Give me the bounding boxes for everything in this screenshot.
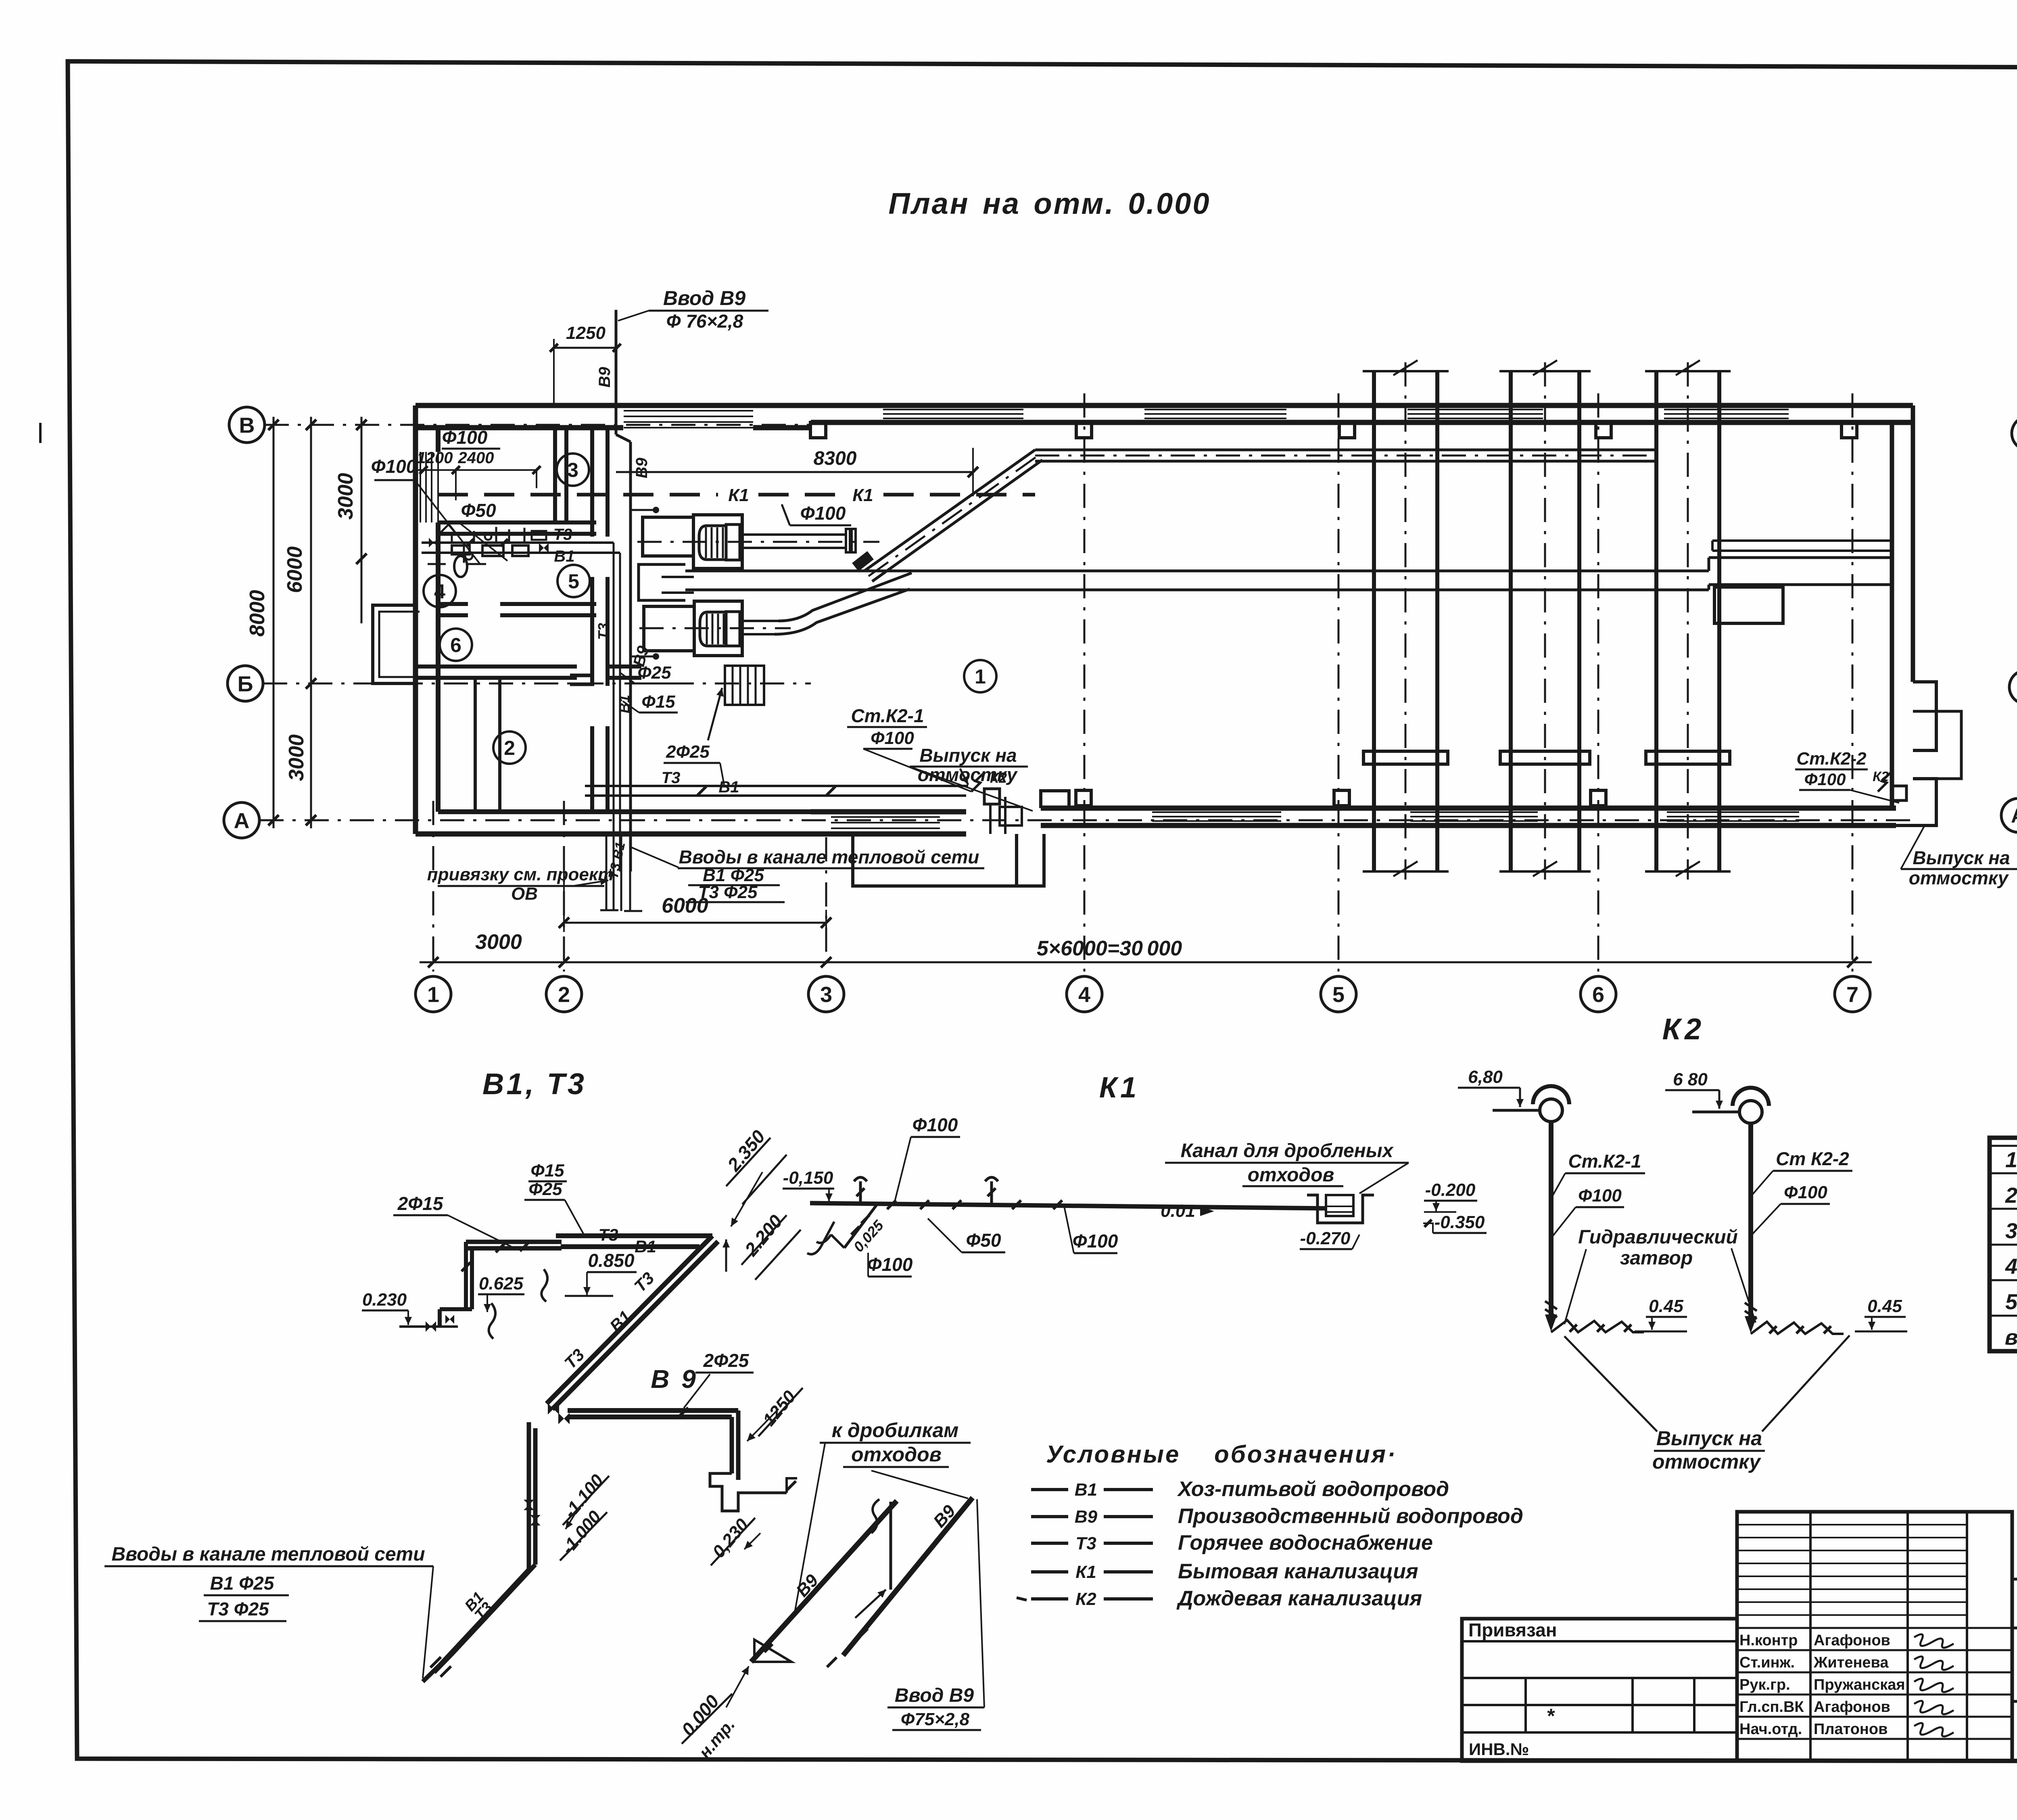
svg-text:2Ф25: 2Ф25 [666, 742, 710, 762]
axis line А horizontal [259, 819, 1916, 821]
K1 sump [1307, 1195, 1374, 1223]
svg-text:В1: В1 [616, 695, 633, 713]
V9 diagonal 2 [843, 1498, 973, 1655]
channel pit right [1714, 587, 1783, 623]
svg-text:Ф50: Ф50 [966, 1230, 1001, 1251]
svg-text:В9: В9 [633, 458, 651, 479]
svg-text:-0.200: -0.200 [1425, 1180, 1476, 1200]
axis line 7 vertical [1852, 393, 1854, 972]
corridor riser pipes T3 B1 [613, 543, 615, 871]
grinder machine 1 motor [693, 515, 742, 568]
svg-text:В9: В9 [1075, 1507, 1098, 1527]
svg-text:Т3: Т3 [598, 1225, 618, 1244]
window band top wall 2189-2537 [883, 409, 1023, 410]
machine 1 shaft [743, 533, 846, 536]
small pipe verticals sanitary [495, 527, 497, 543]
title block: left box Привязан [1462, 1619, 1737, 1761]
window band top wall 3489-3825 [1407, 409, 1543, 410]
partition tambour horizontal [416, 664, 577, 669]
svg-text:Производственный водопровод: Производственный водопровод [1178, 1504, 1523, 1528]
svg-text:1200: 1200 [417, 449, 453, 467]
svg-text:В: В [239, 413, 255, 437]
svg-text:А: А [234, 809, 250, 833]
axis line В horizontal [265, 424, 811, 426]
K2 outlet channel right [1913, 711, 1961, 779]
svg-text:К2: К2 [1662, 1012, 1706, 1046]
svg-text:5: 5 [2005, 1290, 2017, 1314]
axis circle 2 [546, 976, 582, 1012]
svg-text:0.45: 0.45 [1867, 1296, 1902, 1316]
K2 trapezoid leaders to vypusk [1564, 1336, 1657, 1431]
stairs [725, 666, 764, 705]
pipes T3 B1 to K2-1 outlet [585, 785, 968, 787]
legend row К2 [1031, 1597, 1068, 1601]
axis line 4 vertical [1084, 393, 1086, 972]
axis circle А [224, 802, 259, 838]
svg-text:Хоз-питьвой водопровод: Хоз-питьвой водопровод [1177, 1477, 1449, 1501]
svg-text:Т3: Т3 [1075, 1534, 1096, 1553]
axis circle 1 [416, 976, 451, 1012]
hall bottom wall [1041, 806, 1896, 811]
svg-text:План на отм. 0.000: План на отм. 0.000 [888, 187, 1211, 220]
partition room3/5 vertical [553, 428, 557, 522]
gate valve on diagonal [852, 551, 874, 571]
svg-text:К2: К2 [1075, 1589, 1096, 1609]
svg-text:Ст.К2-1: Ст.К2-1 [1568, 1151, 1641, 1172]
axis circle Б [228, 666, 263, 701]
svg-text:5: 5 [1332, 982, 1345, 1007]
sanitary fixtures room 4 [454, 556, 467, 577]
svg-text:Гл.сп.ВК: Гл.сп.ВК [1739, 1699, 1804, 1716]
room number circle 2 [493, 731, 526, 764]
svg-text:7: 7 [1846, 982, 1858, 1007]
svg-text:1: 1 [975, 665, 986, 688]
K1 main horizontal pipe [810, 1203, 1327, 1208]
svg-text:Ст.К2-2: Ст.К2-2 [1796, 749, 1867, 769]
sanitary piping clutter [451, 533, 453, 543]
svg-text:Агафонов: Агафонов [1814, 1699, 1890, 1716]
grille channel group 3 [1654, 371, 1658, 871]
axis line Б horizontal [263, 683, 811, 685]
hall bottom wall left segment [811, 809, 966, 815]
svg-text:В1, Т3: В1, Т3 [482, 1067, 587, 1101]
title block: central signature table [1737, 1512, 2012, 1761]
B9 entry vertical pipe [615, 310, 618, 435]
window band bottom wall 2856-3176 [1152, 811, 1281, 813]
svg-text:Ф100: Ф100 [442, 427, 488, 448]
svg-text:6,80: 6,80 [1468, 1067, 1503, 1087]
svg-text:Ф 76×2,8: Ф 76×2,8 [666, 311, 743, 332]
B9 riser taps with dots [631, 509, 654, 511]
svg-text:Горячее водоснабжение: Горячее водоснабжение [1178, 1531, 1433, 1555]
diagonal channel [865, 450, 1035, 570]
svg-text:0.45: 0.45 [1649, 1296, 1683, 1316]
svg-text:В1: В1 [718, 778, 739, 796]
svg-text:Т3: Т3 [553, 526, 572, 543]
dim line 8000 (vertical) [273, 417, 275, 828]
svg-text:3: 3 [567, 459, 578, 481]
svg-text:3: 3 [2005, 1219, 2017, 1243]
svg-text:отмостку: отмостку [1909, 867, 2009, 888]
svg-text:2Ф15: 2Ф15 [397, 1193, 444, 1214]
svg-text:Ф75×2,8: Ф75×2,8 [901, 1709, 970, 1729]
room number circle 1 [964, 660, 996, 692]
K2 funnel right [1739, 1101, 1762, 1123]
grinder machine 2 motor [694, 601, 742, 656]
left block outer wall top [416, 403, 811, 408]
svg-text:Канал для дробленых: Канал для дробленых [1181, 1140, 1394, 1162]
right branch down [736, 1410, 741, 1480]
svg-text:Б: Б [238, 672, 253, 696]
K2 ground hatch right [1751, 1322, 1844, 1334]
K2 standpipe 2 [1748, 1124, 1753, 1316]
svg-text:2Ф25: 2Ф25 [703, 1350, 750, 1371]
svg-text:Т3: Т3 [595, 623, 612, 640]
dim line 6000/3000 (vertical) [310, 417, 312, 828]
svg-text:Житенева: Житенева [1813, 1654, 1889, 1671]
svg-text:Ф100: Ф100 [867, 1254, 913, 1275]
columns squares on top wall [810, 422, 826, 438]
K2 funnel left [1540, 1099, 1562, 1122]
window band top wall 2837-3189 [1144, 409, 1286, 410]
roof plan axis circle А [2001, 798, 2017, 832]
svg-text:0.01: 0.01 [1161, 1201, 1195, 1221]
dim line 3000 upper (vertical) [361, 417, 363, 623]
svg-text:Ст.К2-1: Ст.К2-1 [851, 705, 924, 726]
svg-text:2400: 2400 [458, 449, 494, 467]
svg-text:Бытовая канализация: Бытовая канализация [1178, 1560, 1418, 1583]
left vertical pipes down [527, 1422, 531, 1569]
svg-text:В 9: В 9 [651, 1364, 698, 1394]
title block: right part [2012, 1578, 2017, 1581]
svg-text:В1: В1 [554, 547, 574, 565]
vypusk channel below building (K2-1) [1017, 834, 1044, 886]
B1T3 top horizontal pipes [556, 1233, 712, 1238]
K2 standpipe 1 [1549, 1122, 1553, 1314]
svg-text:Ф25: Ф25 [637, 663, 671, 683]
legend row В9 [1031, 1515, 1068, 1518]
K1 sewer dashed line [438, 493, 718, 497]
svg-text:отмостку: отмостку [1652, 1450, 1761, 1473]
corridor wall vertical x1468 [590, 428, 594, 537]
pipes T3/B1 horizontal in left block [422, 541, 614, 544]
axis line 3 vertical [825, 837, 827, 972]
svg-text:отходов: отходов [1248, 1164, 1334, 1186]
svg-text:-0.350: -0.350 [1434, 1212, 1485, 1232]
svg-text:Ст.инж.: Ст.инж. [1739, 1654, 1795, 1671]
svg-text:8300: 8300 [814, 448, 857, 469]
svg-text:затвор: затвор [1620, 1247, 1693, 1269]
svg-text:6: 6 [1592, 982, 1604, 1007]
svg-text:Ввод В9: Ввод В9 [895, 1685, 974, 1706]
svg-text:3000: 3000 [285, 734, 308, 781]
svg-text:Ф25: Ф25 [528, 1179, 562, 1199]
svg-text:Ф100: Ф100 [871, 728, 914, 748]
K2-2 stack symbols [1892, 786, 1906, 800]
window band top wall 4125-4434 [1664, 409, 1789, 410]
svg-text:Ф50: Ф50 [461, 500, 496, 521]
svg-text:В9: В9 [596, 367, 614, 388]
svg-text:Агафонов: Агафонов [1814, 1632, 1890, 1649]
B1T3 left riser cluster [464, 1242, 468, 1309]
dim line 6000 axis2-3 [564, 922, 826, 924]
svg-text:Ф100: Ф100 [912, 1114, 958, 1135]
floor channel line A [685, 570, 1709, 573]
svg-text:*: * [1547, 1705, 1555, 1727]
window band bottom wall 4132-4460 [1667, 811, 1799, 813]
left block outer wall bottom [416, 832, 811, 837]
hall top wall [811, 403, 1913, 408]
long channel top (double with dashdot) [1035, 449, 1658, 451]
axis circle В [229, 407, 265, 443]
V9 connector vertical [889, 1502, 892, 1590]
svg-text:обозначения·: обозначения· [1214, 1441, 1397, 1468]
svg-text:В1: В1 [1075, 1480, 1097, 1500]
riser bundle near axis 2-3 [606, 834, 608, 911]
svg-text:Выпуск на: Выпуск на [919, 745, 1017, 766]
svg-text:Привязан: Привязан [1468, 1619, 1557, 1640]
V9 diagonal 1 [751, 1501, 897, 1662]
axis circle 3 [808, 976, 844, 1012]
svg-text:Вводы в канале тепловой сети: Вводы в канале тепловой сети [111, 1544, 425, 1565]
grinder machine 2 feed box [644, 606, 694, 651]
svg-text:3: 3 [820, 982, 832, 1007]
legend row В1 [1031, 1488, 1068, 1491]
axis line 6 vertical [1597, 393, 1599, 972]
window band on left wall [420, 452, 421, 522]
partition tambour/room2 vertical thick [475, 678, 500, 812]
K2 ground hatch left [1551, 1320, 1644, 1332]
grille channel group 1 [1372, 371, 1376, 871]
axis circle 4 [1067, 976, 1102, 1012]
floor channel line B [685, 589, 1709, 591]
svg-text:3000: 3000 [334, 473, 357, 520]
svg-text:5×6000=30 000: 5×6000=30 000 [1037, 937, 1182, 960]
partition room4 bottom horizontal [438, 602, 468, 606]
wall stub at Б axis [570, 674, 594, 677]
dim line bottom 3000 / 5x6000 [420, 961, 1872, 963]
svg-text:4: 4 [2005, 1254, 2017, 1279]
svg-text:Гидравлический: Гидравлический [1578, 1227, 1738, 1248]
upper-right short channel [1712, 539, 1892, 542]
roof plan axis circle Б [2009, 670, 2017, 704]
svg-text:К1: К1 [1099, 1072, 1140, 1104]
axis line 2 vertical [563, 801, 565, 972]
svg-text:8000: 8000 [246, 590, 269, 637]
svg-text:-0,150: -0,150 [783, 1168, 833, 1188]
svg-text:Ф15: Ф15 [530, 1161, 564, 1181]
window band on top wall of left block [624, 410, 753, 412]
svg-text:2: 2 [504, 737, 515, 759]
svg-text:Выпуск на: Выпуск на [1913, 847, 2010, 868]
svg-text:1250: 1250 [566, 323, 606, 343]
svg-text:6 80: 6 80 [1673, 1070, 1708, 1089]
entrance porch outside [373, 605, 416, 683]
svg-text:Ф100: Ф100 [1804, 770, 1846, 789]
svg-text:К1: К1 [1075, 1562, 1096, 1582]
svg-text:3000: 3000 [475, 930, 522, 954]
roof plan axis circle В [2012, 416, 2017, 450]
svg-text:в: в [2005, 1325, 2017, 1350]
svg-text:привязку см. проект: привязку см. проект [427, 865, 614, 884]
svg-text:-0.270: -0.270 [1300, 1229, 1351, 1248]
machine 2 discharge channel [779, 573, 912, 621]
svg-text:Ф100: Ф100 [371, 456, 417, 477]
svg-text:Т3: Т3 [662, 769, 681, 787]
B1T3 lower horizontal pipes [568, 1408, 738, 1413]
elbow down-left to inputs [440, 1569, 529, 1665]
svg-text:6: 6 [450, 634, 461, 656]
svg-text:1: 1 [2005, 1148, 2017, 1172]
svg-text:Ввод В9: Ввод В9 [663, 287, 746, 309]
svg-text:Пружанская: Пружанская [1814, 1676, 1905, 1693]
room number circle 3 [557, 453, 589, 486]
svg-text:4: 4 [1078, 982, 1090, 1007]
svg-text:Ст К2-2: Ст К2-2 [1776, 1148, 1849, 1169]
room number circle 6 [440, 629, 472, 661]
axis circle 7 [1835, 976, 1870, 1012]
axis circle 5 [1321, 976, 1356, 1012]
room number circle 5 [557, 565, 590, 597]
svg-text:ИНВ.№: ИНВ.№ [1469, 1740, 1529, 1759]
svg-text:Условные: Условные [1046, 1441, 1180, 1468]
grille channel group 2 [1509, 371, 1513, 871]
svg-text:Платонов: Платонов [1814, 1721, 1888, 1738]
svg-text:0.625: 0.625 [479, 1274, 524, 1293]
svg-text:К1: К1 [728, 485, 749, 505]
svg-text:Т3 Ф25: Т3 Ф25 [207, 1599, 269, 1619]
svg-text:к дробилкам: к дробилкам [832, 1419, 959, 1442]
room number circle 4 [424, 575, 456, 607]
svg-text:К1: К1 [852, 485, 873, 505]
svg-text:4: 4 [434, 580, 445, 603]
svg-text:0.230: 0.230 [362, 1290, 407, 1310]
K1 vent risers [854, 1177, 867, 1203]
grinder machine 1 feed box [643, 517, 693, 556]
machine 2 shaft [743, 620, 779, 622]
svg-text:6000: 6000 [283, 546, 307, 593]
hall right wall with K2 notch [1890, 422, 1894, 808]
V9 valve squiggle top diag1 [871, 1499, 879, 1533]
window band bottom wall 3496-3812 [1410, 811, 1538, 813]
intake channel box between machines [639, 564, 685, 600]
left block outer wall left [413, 405, 418, 834]
K2-1 stack symbols [984, 789, 1000, 804]
svg-text:1: 1 [427, 982, 439, 1007]
svg-text:В1 Ф25: В1 Ф25 [210, 1573, 275, 1594]
svg-text:Т3 Ф25: Т3 Ф25 [698, 882, 758, 902]
K1 left branch diagonal [844, 1204, 877, 1248]
svg-text:Ф100: Ф100 [1578, 1186, 1622, 1206]
stray mark [1017, 1598, 1027, 1600]
svg-text:2: 2 [558, 982, 570, 1007]
svg-text:А: А [2011, 804, 2017, 827]
svg-text:5: 5 [568, 570, 579, 593]
partition sanitary top horizontal [438, 520, 596, 524]
svg-text:Ф15: Ф15 [641, 692, 675, 712]
axis line 1 vertical [432, 801, 434, 972]
svg-text:2: 2 [2005, 1183, 2017, 1208]
explication table frame [1990, 1138, 2017, 1351]
svg-text:Выпуск на: Выпуск на [1656, 1427, 1762, 1450]
svg-text:В1: В1 [635, 1237, 656, 1256]
svg-text:Дождевая канализация: Дождевая канализация [1176, 1587, 1422, 1610]
columns squares on bottom wall [1076, 790, 1091, 806]
leaders from label [794, 1444, 825, 1617]
V9 triangle symbol [754, 1640, 791, 1662]
svg-text:Нач.отд.: Нач.отд. [1739, 1721, 1802, 1738]
axis circle 6 [1581, 976, 1616, 1012]
svg-text:0.850: 0.850 [588, 1250, 635, 1271]
svg-text:Н.контр: Н.контр [1739, 1632, 1798, 1649]
svg-text:Рук.гр.: Рук.гр. [1739, 1676, 1790, 1693]
svg-text:Ф100: Ф100 [1073, 1231, 1118, 1252]
svg-text:Вводы в канале тепловой сети: Вводы в канале тепловой сети [679, 846, 979, 867]
legend row Т3 [1031, 1542, 1068, 1545]
axis line 5 vertical [1338, 393, 1340, 972]
B1T3 main diagonal [547, 1236, 712, 1404]
svg-text:Ф100: Ф100 [1784, 1183, 1827, 1202]
svg-text:Ф100: Ф100 [800, 503, 846, 524]
svg-text:отходов: отходов [851, 1443, 942, 1466]
legend row К1 [1031, 1570, 1068, 1573]
margin tick mark left [39, 423, 42, 443]
